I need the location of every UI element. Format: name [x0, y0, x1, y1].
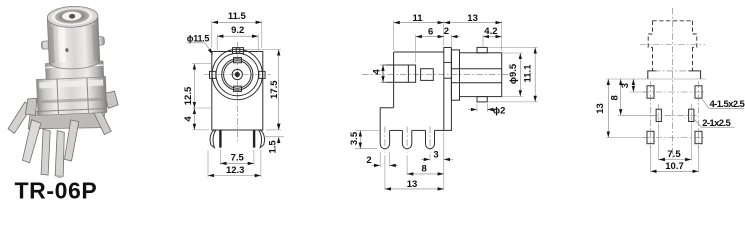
keyway notch bottom: [234, 86, 242, 91]
svg-text:13: 13: [595, 103, 606, 114]
bayonet pin bottom: [477, 97, 487, 102]
ext lines down: [658, 124, 660, 161]
dim 4 rear box: [380, 64, 387, 66]
row centerlines: [630, 91, 647, 93]
left hook leg: [210, 130, 216, 147]
svg-text:2-1x2.5: 2-1x2.5: [702, 118, 731, 129]
dim phi2 bayonet pin: [476, 104, 478, 112]
svg-text:3.5: 3.5: [349, 131, 360, 145]
white insulator: [62, 11, 82, 21]
svg-text:11.5: 11.5: [228, 11, 247, 22]
svg-text:TR-06P: TR-06P: [15, 177, 98, 203]
leg A2 tip: [39, 129, 52, 175]
svg-text:12.5: 12.5: [183, 86, 194, 105]
center pin: [235, 72, 240, 77]
dim 4 left: [192, 129, 209, 131]
svg-text:7.5: 7.5: [231, 153, 245, 164]
centerline horizontal: [204, 74, 271, 76]
dim 13 bottom: [384, 155, 386, 190]
leg 2: [402, 130, 411, 148]
leg C: [63, 120, 81, 162]
dim 1.5 right: [264, 136, 284, 138]
center vertical axis: [672, 8, 674, 160]
svg-text:10.7: 10.7: [665, 161, 684, 172]
svg-text:ϕ2: ϕ2: [493, 105, 505, 116]
dim 3: [632, 79, 634, 92]
column centerlines: [650, 82, 652, 149]
front leg B: [53, 130, 66, 176]
bayonet pin top: [477, 47, 487, 52]
svg-text:2: 2: [444, 26, 449, 37]
hidden lug left: [648, 34, 652, 47]
right front leg (dark): [253, 130, 255, 147]
top tab: [233, 48, 244, 54]
label 4-1.5x2.5: [701, 98, 709, 109]
svg-text:11.1: 11.1: [523, 64, 534, 83]
front body square: [212, 52, 263, 131]
barrel: [460, 53, 502, 97]
front leg A: [21, 119, 43, 163]
centerline horizontal axis: [362, 74, 509, 76]
dim 11 top: [393, 21, 395, 51]
front plate: [444, 48, 452, 131]
leg 1: [380, 130, 389, 148]
dim 9.2: [216, 34, 218, 52]
bracket base band: [27, 108, 106, 130]
left front leg (dark): [219, 130, 221, 147]
centerline vertical: [236, 42, 238, 143]
body block: [36, 76, 107, 115]
pad mid left: [656, 109, 661, 121]
svg-text:4: 4: [371, 68, 382, 74]
svg-text:9.2: 9.2: [231, 25, 244, 36]
VIEW 2 : side view: [349, 13, 538, 190]
svg-text:4: 4: [183, 116, 194, 122]
bayonet lug right: [94, 36, 104, 45]
pad row2 right: [695, 131, 702, 143]
dim 11.1: [487, 46, 538, 48]
dim 12.3 bottom: [207, 150, 209, 177]
base bottom segments: [390, 129, 403, 131]
ring 2: [216, 53, 259, 96]
hidden lug right: [693, 34, 697, 47]
svg-text:8: 8: [422, 164, 427, 175]
dim 3 leg3 to edge: [429, 154, 431, 160]
dim 8: [406, 155, 408, 175]
right leg: [90, 100, 111, 135]
lug axis centerline: [640, 44, 705, 46]
bracket step: [380, 108, 393, 131]
center hole: [232, 69, 242, 79]
bracket rear edge: [393, 52, 395, 108]
side wing right: [105, 91, 119, 109]
svg-text:2: 2: [366, 155, 371, 166]
side wing left: [25, 98, 38, 116]
rear hook leg upper-left: [7, 102, 32, 134]
side lug left: [210, 71, 216, 78]
leg 3: [426, 130, 435, 148]
dim 4.2: [482, 35, 484, 47]
dimple on barrel wall: [65, 48, 68, 52]
dim 13 left: [607, 79, 609, 138]
barrel shading bands: [49, 27, 55, 63]
rear housing box: [383, 65, 416, 82]
svg-text:17.5: 17.5: [269, 80, 280, 99]
dim 6: [415, 35, 417, 63]
svg-text:4.2: 4.2: [484, 26, 497, 37]
dim 17.5 right: [244, 48, 281, 50]
collar ring: [451, 50, 459, 100]
dim 8: [620, 79, 622, 115]
dim 3.5 legs: [355, 129, 380, 131]
barrel cylinder: [47, 16, 100, 70]
bayonet lug left: [41, 41, 50, 49]
svg-text:7.5: 7.5: [667, 149, 681, 160]
pad row2 left: [647, 131, 654, 143]
svg-text:6: 6: [428, 27, 433, 38]
dim 7.5: [659, 159, 692, 161]
dim 7.5 bottom: [219, 150, 221, 166]
svg-text:ϕ11.5: ϕ11.5: [187, 33, 210, 43]
dim 12.5 left: [192, 63, 211, 65]
svg-text:4-1.5x2.5: 4-1.5x2.5: [710, 99, 745, 110]
svg-text:1.5: 1.5: [268, 140, 279, 154]
svg-text:3: 3: [433, 149, 438, 160]
leg B tip: [56, 174, 64, 178]
bracket top edge: [394, 51, 444, 53]
pad mid right: [689, 109, 694, 121]
label 2-1x2.5: [693, 118, 702, 127]
svg-text:3: 3: [620, 83, 631, 88]
plate outline corners: [648, 71, 657, 79]
reference line: [606, 78, 706, 80]
center hole: [69, 14, 75, 19]
ring 4: [224, 61, 251, 88]
svg-text:8: 8: [609, 95, 620, 100]
svg-text:12.3: 12.3: [226, 165, 245, 176]
dim phi9.5: [502, 52, 523, 54]
svg-text:ϕ9.5: ϕ9.5: [508, 63, 519, 84]
side lug right: [259, 71, 265, 78]
svg-text:11: 11: [412, 13, 423, 24]
dim 2 leg width: [379, 152, 381, 167]
dim 10.7: [651, 170, 699, 172]
pad row1 left: [647, 86, 654, 98]
leg centerlines: [384, 127, 386, 153]
pad row1 right: [695, 86, 702, 98]
ring 3: [222, 59, 253, 90]
contact tip rect: [421, 69, 434, 81]
VIEW 3 : bottom view / PCB footprint: [595, 8, 745, 172]
hidden body outline dashed: [653, 20, 693, 22]
right hook leg: [259, 130, 265, 147]
dim 2 plate thickness: [450, 35, 452, 49]
barrel top rim: [47, 5, 98, 28]
outer circle (barrel front): [212, 49, 262, 99]
VIEW 1 : front view: [183, 11, 284, 177]
svg-text:13: 13: [407, 179, 418, 190]
keyway notch top: [234, 58, 242, 63]
photo of BNC jack TR-06P: [3, 5, 121, 181]
dim 13 top: [501, 21, 503, 52]
collar flange under barrel: [45, 61, 103, 79]
dim 11.5 top: [211, 20, 213, 47]
svg-text:13: 13: [467, 13, 478, 24]
barrel inner lines: [451, 68, 501, 70]
